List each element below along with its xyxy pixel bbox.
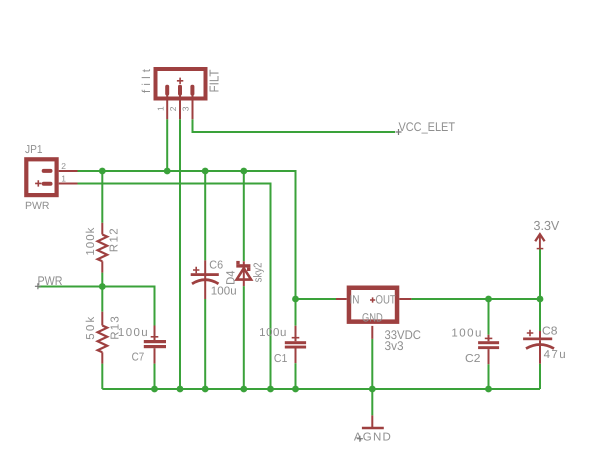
capacitor C8 <box>523 330 554 364</box>
pin label +OUT <box>370 292 396 306</box>
capacitor C1 <box>285 299 306 389</box>
wire R13 bottom segment to bus <box>101 364 103 389</box>
pin FILT.2 <box>179 96 181 120</box>
wire 3.3V supply drop <box>539 249 541 299</box>
svg-text:OUT: OUT <box>376 292 397 306</box>
supply symbol 3.3V <box>535 234 544 249</box>
wire regulator OUT to 3.3V node <box>411 298 540 300</box>
wire C8 bottom to bus corner <box>539 364 541 389</box>
svg-text:C2: C2 <box>465 353 480 365</box>
svg-text:2: 2 <box>168 106 178 111</box>
voltage regulator U (33VDC / 3v3) <box>349 288 397 322</box>
junction node C2 top <box>485 296 492 303</box>
svg-text:sky2: sky2 <box>252 262 264 282</box>
origin cross of AGND label <box>357 436 363 442</box>
pin FILT.1 <box>166 96 168 120</box>
wire net from JP1 pin1 (y=183.5, down at x=270.5 to ground bus) <box>78 184 271 390</box>
wire C6 bottom to bus <box>204 299 206 389</box>
wire D4 bottom to bus <box>243 286 245 389</box>
pin FILT.3 <box>192 96 194 120</box>
svg-text:47u: 47u <box>544 349 566 361</box>
svg-text:VCC_ELET: VCC_ELET <box>399 120 456 134</box>
svg-text:C8: C8 <box>542 325 558 337</box>
wire C2 bottom to bus <box>488 364 490 389</box>
svg-text:C7: C7 <box>132 352 145 364</box>
capacitor C7 <box>144 326 166 364</box>
junction node bus D4 <box>240 386 247 393</box>
junction node C6 top <box>202 168 209 175</box>
wire C8 top segment <box>539 299 541 331</box>
wire C2 top segment <box>488 299 490 335</box>
svg-text:IN: IN <box>350 292 360 306</box>
wire FILT pin3 to VCC_ELET label <box>193 119 396 132</box>
wire D4 top segment <box>243 171 245 261</box>
origin cross of VCC_ELET label <box>396 129 402 135</box>
resistor R13 <box>98 312 108 364</box>
svg-text:3.3V: 3.3V <box>534 218 560 233</box>
wire C7 bottom to bus <box>154 364 156 389</box>
wire R12-R13 middle segment through PWR node <box>101 273 103 312</box>
diode D4 (schottky) <box>236 261 251 286</box>
pin JP1.2 <box>59 170 78 172</box>
connector FILT <box>156 69 206 99</box>
junction node bus C1 <box>292 386 299 393</box>
svg-text:FILT: FILT <box>207 69 222 92</box>
svg-text:PWR: PWR <box>38 274 63 288</box>
wire ground bus (bottom horizontal) <box>102 388 540 390</box>
svg-text:D4: D4 <box>224 270 238 285</box>
resistor R12 <box>98 223 108 273</box>
capacitor C2 <box>478 335 499 365</box>
svg-text:100u: 100u <box>211 286 237 298</box>
pin regulator GND <box>371 326 373 339</box>
ground symbol AGND <box>362 415 384 428</box>
wire FILT pin2 drop to bus <box>179 119 181 389</box>
pin JP1.1 <box>59 183 78 185</box>
junction node JP1.2/R12 <box>99 168 106 175</box>
svg-text:1: 1 <box>61 174 66 184</box>
svg-text:50k: 50k <box>85 316 97 339</box>
svg-text:C6: C6 <box>209 260 223 272</box>
junction node bus C6 <box>202 386 209 393</box>
svg-text:R12: R12 <box>109 228 121 252</box>
svg-text:JP1: JP1 <box>25 144 43 156</box>
origin cross of PWR label <box>35 283 41 289</box>
wire PWR node to C7 top <box>102 287 154 326</box>
junction node PWR <box>99 283 106 290</box>
wire FILT pin1 drop <box>166 119 168 171</box>
svg-text:PWR: PWR <box>25 200 50 212</box>
svg-text:2: 2 <box>61 161 66 171</box>
wire regulator GND to AGND <box>371 339 373 416</box>
junction node D4 top <box>240 168 247 175</box>
pin regulator IN <box>336 298 347 300</box>
wire net from JP1 pin2 to regulator IN (top horizontal y=171, down at x=295.5, to IN) <box>78 171 339 299</box>
svg-text:GND: GND <box>362 311 383 325</box>
svg-text:filt: filt <box>141 68 153 93</box>
junction node FILT.1 <box>164 168 171 175</box>
wire C6 top segment <box>204 171 206 260</box>
svg-text:1: 1 <box>155 106 165 111</box>
junction node 3.3V <box>537 296 544 303</box>
svg-text:100u: 100u <box>451 327 481 339</box>
pin regulator OUT <box>399 298 411 300</box>
junction node bus AGND <box>369 386 376 393</box>
svg-text:100u: 100u <box>259 327 286 339</box>
svg-text:100u: 100u <box>118 327 148 339</box>
capacitor C6 <box>191 260 219 299</box>
junction node bus C7 <box>151 386 158 393</box>
junction node bus FILT.2 <box>177 386 184 393</box>
svg-text:3v3: 3v3 <box>385 339 404 353</box>
junction node bus C2 <box>485 386 492 393</box>
connector JP1 <box>26 159 56 195</box>
svg-text:100k: 100k <box>85 227 97 255</box>
junction node reg IN <box>292 296 299 303</box>
junction node bus JP1.1 <box>267 386 274 393</box>
svg-text:3: 3 <box>181 106 191 111</box>
wire PWR net stub <box>38 286 103 288</box>
svg-text:C1: C1 <box>274 353 288 365</box>
wire R12 top segment <box>101 171 103 223</box>
